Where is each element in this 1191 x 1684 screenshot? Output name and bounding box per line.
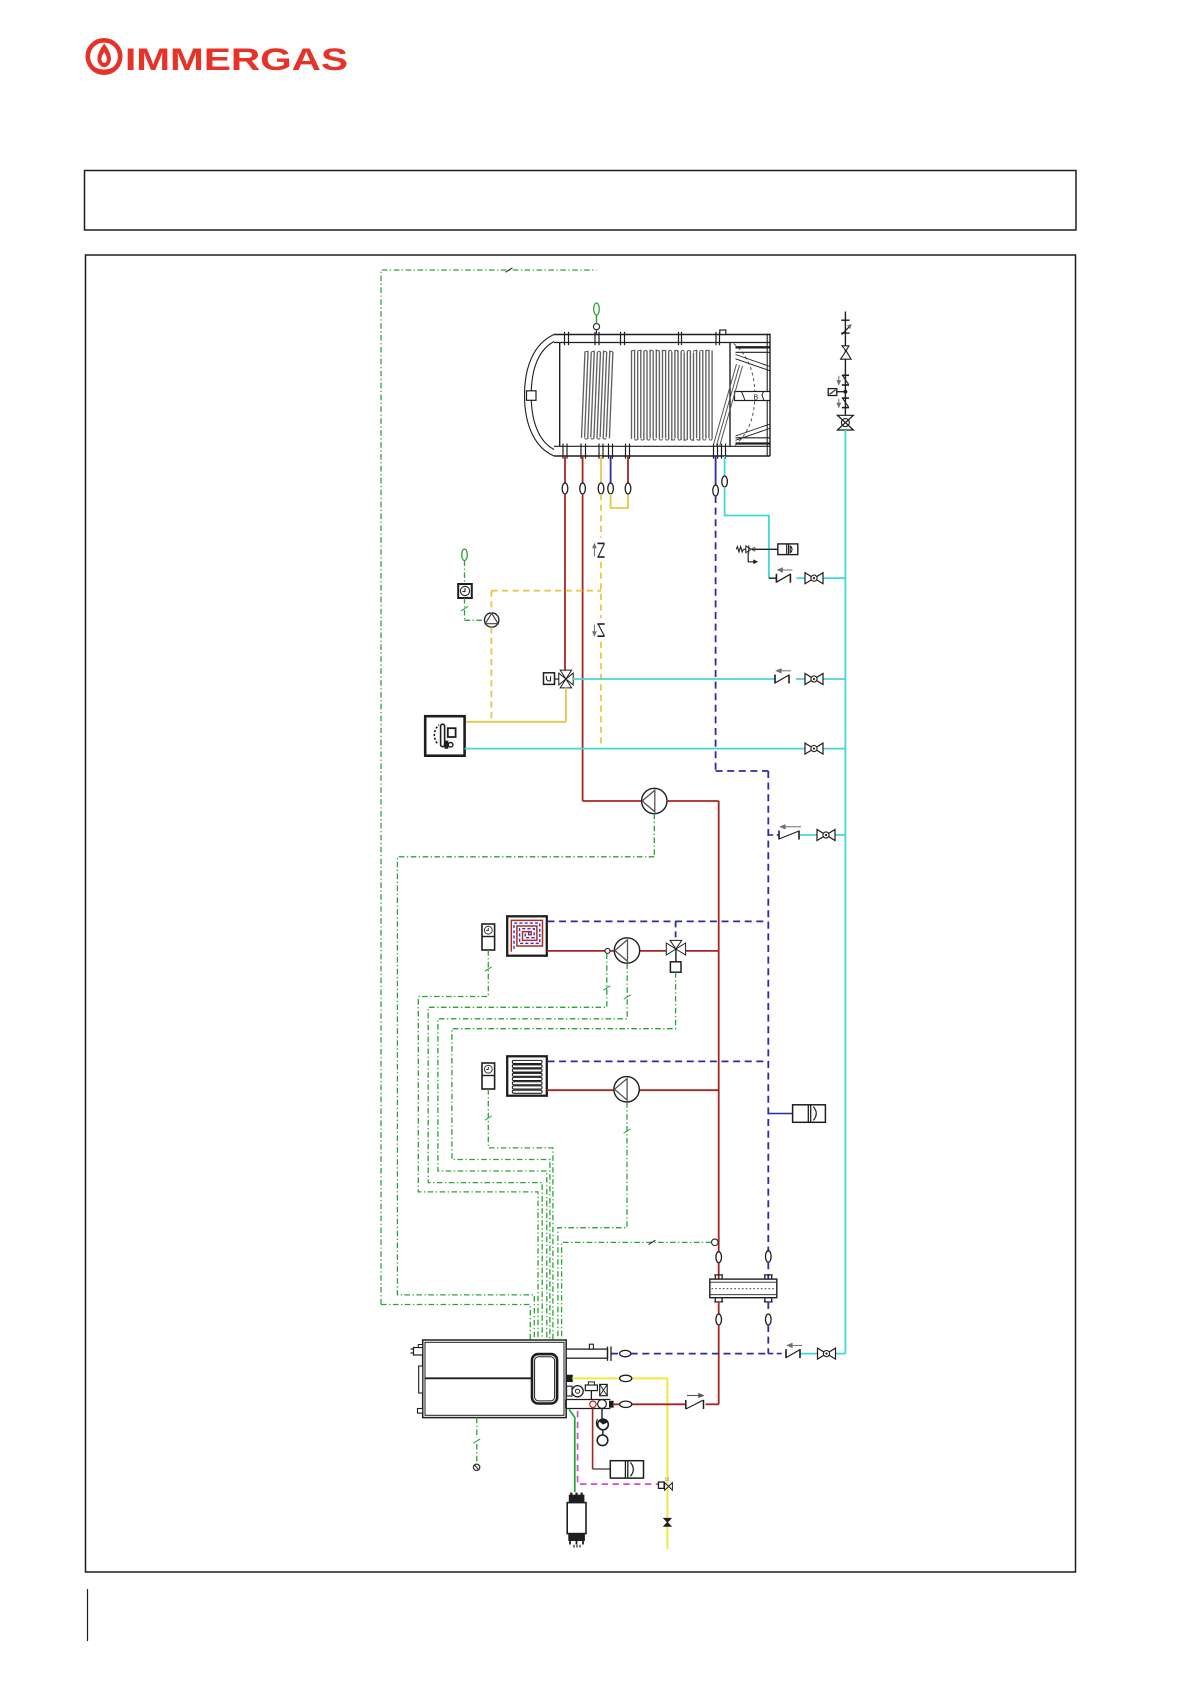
wire: red pipe port1 to mixing valve	[564, 494, 566, 671]
wire: green timer to solar pump	[461, 598, 485, 620]
DHW loading pump	[642, 788, 667, 813]
wire: zone1 blue dashed return	[548, 920, 769, 922]
tank connection stub ticks	[563, 332, 726, 459]
tank heating coil (left, solar)	[582, 351, 613, 440]
check valve branch 835	[779, 825, 801, 840]
shutoff valve port4	[608, 483, 614, 494]
shutoff valve gas	[620, 1375, 632, 1381]
wire: cyan into return	[800, 1353, 845, 1355]
wire: tank stub red (port1)	[564, 456, 566, 483]
page fold mark	[87, 1589, 89, 1641]
cable: zone1 flow sensor	[428, 953, 610, 1340]
pipe end tick	[841, 319, 849, 321]
shutoff valve port2	[580, 483, 586, 494]
floor heating manifold panel	[507, 916, 547, 955]
zone2 room thermostat	[482, 1063, 495, 1089]
wire: red pipe port2 down	[582, 494, 584, 801]
cable: solar loop to bundle	[381, 1305, 530, 1341]
gate valve line 748	[805, 743, 823, 754]
cable: pump cable trunk x397	[397, 857, 654, 1340]
check valve (down) 1	[837, 375, 849, 385]
wire: cyan recirculation line 748	[465, 748, 846, 750]
shutoff valve port6	[713, 485, 719, 496]
wire: boiler flow red	[613, 1403, 686, 1405]
floor heating spiral (return blue)	[514, 923, 540, 949]
wire: blue to boiler return	[767, 1325, 769, 1354]
pressure gauge	[828, 389, 847, 396]
wire: gas line yellow	[572, 1378, 667, 1549]
check valve on inlet (up)	[841, 324, 851, 334]
gate valve boiler fill	[818, 1348, 836, 1359]
wire: blue dashed return down then right	[716, 496, 769, 771]
wire: blue drop to zone1 valve	[675, 921, 677, 940]
DHW expansion vessel	[778, 544, 798, 555]
shutoff valve sep top-right	[766, 1251, 772, 1263]
radiator panel	[507, 1056, 547, 1095]
IMMERGAS logo text	[125, 41, 348, 77]
flow temperature sensor zone1	[605, 948, 610, 953]
gate valve branch 578	[805, 573, 823, 584]
cable: separator sensor	[562, 1240, 712, 1340]
shutoff valve boiler flow	[620, 1401, 632, 1407]
tank coil riser pipes (diagonal)	[714, 364, 743, 447]
title box	[85, 171, 1077, 231]
floor heating spiral (flow red)	[511, 920, 542, 951]
gate valve branch 835	[817, 830, 835, 841]
zone1 circulation pump	[614, 938, 639, 963]
svg-text:IMMERGAS: IMMERGAS	[125, 41, 348, 77]
wire: condensate drain green	[569, 1410, 575, 1493]
shutoff valve port1	[562, 483, 568, 494]
wire: gas connection square	[566, 1375, 572, 1381]
check valve boiler flow	[686, 1393, 704, 1409]
shutoff valve boiler return	[620, 1350, 631, 1356]
timer control box	[458, 584, 472, 598]
wire: sensor line stubs	[596, 315, 598, 335]
gas solenoid valve	[659, 1477, 673, 1491]
cable: zone2 thermostat	[485, 1089, 553, 1340]
wire: tank stub red (port5)	[627, 456, 629, 483]
wire: boiler return blue dashed	[611, 1353, 786, 1355]
main shutoff gate valve (inlet)	[837, 415, 853, 430]
wire: tank stub blue return (port6)	[715, 456, 717, 485]
gate valve line 679	[805, 674, 823, 685]
wire: cold water inlet top pipe	[844, 312, 846, 416]
wire: condensate control magenta	[578, 1411, 659, 1484]
cable: zone2 pump	[558, 1102, 631, 1340]
mixing valve actuator box	[544, 673, 560, 685]
zone1 mixing valve (3-way)	[666, 940, 685, 961]
boiler expansion vessel	[610, 1461, 643, 1478]
wire: zone1 red flow	[547, 950, 719, 952]
wire: red port2 to loading pump	[583, 800, 642, 802]
check valve (flow down) on solar riser	[593, 624, 605, 636]
wire: blue branch 835	[768, 834, 845, 836]
zone1 valve actuator	[670, 962, 681, 972]
wire: tank stub cyan DHW (port7)	[724, 456, 726, 476]
wire: red below separator	[718, 1302, 720, 1314]
wire: tank stub red (port2)	[582, 456, 584, 483]
wire: gold U-link port4-port5	[611, 494, 628, 508]
remote control panel box	[425, 716, 464, 756]
condensing boiler body	[411, 1340, 567, 1418]
shutoff valve sep bottom-left	[716, 1314, 722, 1325]
wire: vessel connection	[768, 1113, 792, 1115]
wire: red pump to riser	[667, 801, 719, 1252]
boiler hydraulic group (pump/safety valve)	[566, 1382, 613, 1409]
wire: mixed water cyan line 679	[573, 678, 845, 680]
storage tank (DHW cylinder) body	[525, 330, 771, 456]
tank top temperature sensor pocket	[593, 324, 599, 330]
cable: zone1 pump	[438, 964, 631, 1341]
wire: red to boiler expansion vessel	[593, 1409, 611, 1470]
check valve (down) 2	[837, 398, 849, 408]
check valve line 679	[775, 669, 791, 684]
shutoff valve port5	[625, 483, 631, 494]
shutoff valve on tank sensor line	[594, 303, 600, 315]
IMMERGAS logo mark (flame ring)	[88, 40, 120, 72]
shutoff valve port7	[722, 476, 728, 487]
wire: cyan branch 578	[769, 577, 846, 579]
zone2 circulation pump	[614, 1077, 639, 1102]
check valve (flow up) on solar riser	[593, 543, 605, 557]
drawing frame	[86, 255, 1076, 1572]
svg-text:B: B	[754, 394, 759, 401]
zone1 room thermostat	[482, 924, 495, 950]
wire: blue return riser	[767, 771, 769, 1251]
tank heating coil (right, boiler)	[632, 350, 713, 442]
separator sensor pocket	[712, 1239, 719, 1246]
cable: zone1 thermostat	[418, 950, 538, 1340]
hydraulic separator	[710, 1275, 777, 1302]
wire: tank stub blue (port4)	[610, 456, 612, 483]
wire: red into separator	[718, 1263, 720, 1279]
boiler flue pipe	[566, 1344, 611, 1361]
wire: blue below separator	[767, 1302, 769, 1314]
wire: blue into separator	[767, 1262, 769, 1279]
shutoff valve port3	[598, 483, 604, 494]
wire: tee to DHW expansion vessel	[753, 548, 778, 550]
heating expansion vessel	[793, 1105, 826, 1123]
wire: zone2 blue dashed return	[548, 1060, 769, 1062]
check valve branch 578	[776, 568, 792, 583]
wire: gold drop from mixing valve	[465, 688, 566, 722]
shutoff valve sep bottom-right	[766, 1314, 772, 1325]
wire: tank stub yellow (port3)	[600, 456, 602, 483]
shutoff valve sep top-left	[716, 1252, 722, 1263]
wire: cold water cyan riser	[844, 430, 846, 1354]
gas cock	[664, 1518, 672, 1526]
solar circulation pump	[485, 613, 499, 627]
wire: cyan DHW outlet pipe	[725, 487, 769, 578]
wire: red feed into mixing valve	[0, 0, 1, 1]
thermostatic mixing valve	[559, 670, 573, 688]
wire: gold dashed pump risers	[491, 591, 601, 722]
shutoff valve on timer line	[462, 549, 468, 561]
wire: solar flow dashed gold riser	[600, 494, 602, 749]
wire: green pump cable	[653, 814, 655, 857]
condensate neutraliser	[567, 1493, 586, 1548]
cable: solar collector loop (left/top)	[381, 268, 597, 1305]
cable: zone1 actuator	[452, 972, 676, 1340]
svg-text:12: 12	[665, 1477, 670, 1482]
wire: red to boiler flow	[706, 1325, 719, 1404]
check valve boiler fill	[786, 1343, 802, 1358]
outdoor probe cable	[473, 1418, 480, 1471]
pressure relief valve	[841, 346, 852, 359]
wire: zone2 red flow	[547, 1089, 719, 1091]
DHW safety valve (spring + discharge)	[736, 545, 757, 563]
wire: green to timer box	[464, 561, 466, 585]
condensate siphon	[596, 1409, 608, 1446]
